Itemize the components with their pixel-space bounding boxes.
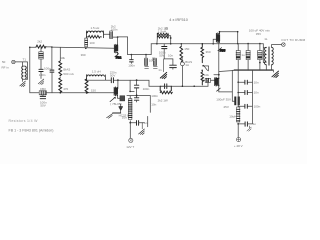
short vertical right	[147, 116, 149, 126]
resistor R5	[110, 31, 113, 39]
labels above R5	[111, 25, 118, 32]
capacitor chain C12b	[134, 96, 138, 102]
svg-text:1A: 1A	[185, 63, 189, 67]
svg-text:10n: 10n	[254, 91, 259, 95]
capacitor C18	[238, 91, 252, 95]
label 100uF 35V	[249, 29, 271, 37]
svg-text:150: 150	[184, 47, 189, 51]
svg-text:1.5 uH: 1.5 uH	[92, 70, 101, 74]
capacitor C10 electrolytic	[258, 44, 262, 71]
resistor R10 150	[180, 44, 183, 62]
wire R360 top	[86, 75, 88, 79]
svg-text:1n: 1n	[158, 68, 162, 72]
node dots rail B	[237, 81, 239, 93]
node dot reg line	[136, 94, 138, 96]
wire feedback to R5	[103, 33, 109, 35]
ground arrow left	[107, 113, 121, 118]
wire T2 bottom to ground	[266, 65, 271, 71]
wire supply bottom line	[219, 70, 273, 71]
connector J4 +28V	[237, 138, 241, 142]
wire input to T1	[15, 62, 27, 66]
wire Q3 source / Q4 drain column	[218, 42, 220, 92]
svg-text:RF in: RF in	[2, 66, 9, 70]
ground below C15	[139, 123, 145, 135]
label BIAS 500mA	[63, 67, 73, 75]
svg-text:OUT TO DUMM: OUT TO DUMM	[281, 38, 305, 42]
wire main rail	[151, 43, 263, 45]
resistor R12	[201, 71, 204, 85]
regulator U1 78L05	[120, 96, 125, 101]
wire FB4 to regulator	[118, 97, 120, 99]
svg-text:50V: 50V	[110, 73, 115, 77]
wire gate Q4	[202, 79, 214, 81]
resistor R14	[160, 86, 172, 94]
node dot bias mid	[60, 75, 62, 77]
wire R10 to meter	[181, 56, 184, 62]
node dot fb2	[170, 37, 172, 39]
wire right rail reg	[149, 96, 151, 113]
svg-text:25V: 25V	[224, 105, 229, 109]
wire rail C	[251, 70, 253, 124]
wire C11 to interstage line	[114, 80, 208, 86]
stub and dot left of caps	[129, 80, 134, 92]
ferrite bead FB3	[39, 91, 46, 95]
node dot gate upper	[85, 48, 87, 50]
wire feedback2 right to node	[168, 36, 171, 44]
wire Q4 source to electrolytic	[219, 91, 233, 93]
capacitor chain C12a	[134, 80, 138, 96]
ground below C6	[160, 59, 166, 79]
wire left vertical rail	[29, 47, 31, 93]
label RF in	[2, 60, 9, 70]
transistor Q3 IRF510	[216, 33, 220, 43]
transistor Q4 IRF510	[215, 77, 219, 86]
svg-text:100n: 100n	[39, 73, 46, 77]
wire Z link drain to bias line	[118, 37, 128, 55]
wire T1 secondary rail	[26, 62, 28, 80]
node dot key	[129, 122, 131, 124]
inductor L1	[86, 31, 103, 38]
resistor R9 parallel	[157, 33, 168, 38]
svg-text:100: 100	[90, 41, 95, 45]
node dot R1 right	[51, 46, 53, 48]
transistor Q2 IRF510	[114, 87, 118, 96]
capacitor C15	[137, 121, 139, 126]
capacitor C7	[164, 59, 176, 69]
svg-text:2k2 1W: 2k2 1W	[158, 99, 168, 103]
ferrite bead FB5	[218, 48, 226, 53]
wire reg line y95	[127, 95, 150, 97]
labels feedback cell 2	[158, 27, 168, 34]
svg-text:10n: 10n	[254, 80, 259, 84]
svg-text:FB2: FB2	[116, 55, 122, 59]
capacitor C1	[39, 59, 43, 79]
transformer T1	[22, 66, 27, 79]
labels 220n 50V	[110, 71, 117, 78]
wire Q2 source	[117, 96, 119, 99]
resistor R4 parallel	[86, 31, 103, 38]
capacitor C13	[160, 84, 171, 89]
wire Q3 drain to supply	[220, 32, 238, 44]
node dots drain line	[182, 85, 195, 87]
svg-text:100uF 35V: 100uF 35V	[216, 98, 231, 102]
ferrite bead FB4	[110, 97, 116, 102]
resistor R13 360	[85, 79, 88, 93]
node dot cap chain	[136, 79, 138, 81]
wire rail A down	[232, 70, 234, 101]
label C6	[159, 50, 166, 57]
label BIAS 1A	[185, 60, 192, 67]
inductor L2	[157, 33, 168, 38]
node dot +28	[237, 123, 239, 125]
svg-text:1u: 1u	[241, 53, 245, 57]
capacitor C20	[245, 122, 247, 126]
wire R3 to lower gate line	[59, 91, 61, 93]
wire gate riser Q4	[207, 80, 209, 86]
svg-text:50V: 50V	[40, 103, 45, 107]
ferrite bead FB6	[205, 78, 210, 82]
node dot trimmer wiper	[201, 70, 203, 72]
svg-text:50: 50	[2, 60, 6, 64]
svg-text:100n: 100n	[254, 105, 261, 109]
wire key node	[130, 121, 136, 123]
resistor R11 360	[201, 44, 204, 63]
small mark circle	[165, 27, 168, 30]
node dots bias line	[131, 54, 147, 56]
capacitor C6 below rail	[162, 44, 167, 59]
capacitor C9 electrolytic	[246, 44, 250, 71]
wire feedback2 left to rail	[156, 38, 158, 44]
choke RFC1	[129, 96, 132, 120]
ferrite bead FB2	[115, 54, 122, 60]
resistor R7	[145, 55, 148, 66]
small bead on riser	[152, 58, 154, 60]
svg-text:100n: 100n	[143, 87, 150, 91]
node dots drain line	[219, 31, 239, 33]
wire to +28 connector	[237, 124, 239, 138]
wire riser to rail	[150, 44, 152, 55]
wire lower gate line right	[46, 92, 114, 94]
ground below T1	[20, 79, 26, 87]
wire source lead Q1	[117, 53, 119, 56]
capacitor C16 electrolytic input	[234, 97, 240, 106]
choke RFC2	[237, 107, 240, 122]
connector J3 key	[129, 138, 133, 142]
wire Q2 drain	[117, 80, 119, 88]
svg-text:BIAS: BIAS	[63, 67, 70, 71]
svg-text:1n: 1n	[144, 121, 148, 125]
ground below C1	[38, 79, 44, 85]
svg-text:100n: 100n	[128, 64, 135, 68]
resistor R2 bias upper	[59, 61, 62, 76]
wire rail B	[237, 70, 239, 107]
svg-text:Resistors 1/4 W: Resistors 1/4 W	[9, 119, 39, 123]
svg-text:50V: 50V	[159, 53, 164, 57]
trimmer P1	[202, 65, 208, 71]
bias divider riser	[59, 48, 61, 61]
resistor R8	[154, 58, 157, 65]
connector J2 output	[282, 43, 286, 47]
svg-text:1.5 uH: 1.5 uH	[91, 26, 100, 30]
wire bottom supply line	[234, 69, 273, 71]
svg-text:360: 360	[81, 53, 86, 57]
svg-text:FB3: FB3	[40, 87, 46, 91]
label C3	[40, 100, 47, 107]
wire meter to drain line	[181, 66, 183, 86]
wire gate line upper	[52, 47, 115, 48]
svg-text:12V T: 12V T	[126, 145, 134, 149]
node dot supply join	[218, 74, 220, 76]
ground below T2	[272, 70, 279, 77]
svg-text:1L: 1L	[264, 37, 268, 41]
capacitor C19	[238, 104, 252, 108]
inductor L3	[87, 75, 105, 80]
node dot left top	[29, 47, 31, 49]
svg-text:4 x IRF510: 4 x IRF510	[169, 18, 188, 22]
stub left of dot	[214, 74, 219, 76]
svg-text:10n: 10n	[122, 116, 127, 120]
wire bias line	[128, 54, 152, 56]
svg-text:360: 360	[206, 50, 211, 54]
capacitor C4	[130, 55, 134, 64]
node dot drain Q1	[117, 36, 119, 38]
transformer T2	[265, 47, 274, 66]
resistor R3 bias lower	[59, 78, 62, 93]
wire L3 bottom	[87, 75, 111, 80]
wire key connector stem	[129, 123, 131, 139]
wire C20 right	[247, 123, 252, 125]
svg-text:FB 1 - 3 FB43 801 (Amidon): FB 1 - 3 FB43 801 (Amidon)	[9, 129, 54, 133]
svg-text:10uH: 10uH	[229, 114, 236, 118]
svg-text:+ 28 V: + 28 V	[234, 144, 243, 148]
svg-text:2k2: 2k2	[37, 40, 42, 44]
wire T2 secondary to output	[272, 45, 282, 48]
node dot Q2 drain top	[117, 79, 119, 81]
labels right of reg rail	[151, 94, 158, 106]
svg-text:1.5uH: 1.5uH	[158, 29, 166, 33]
svg-text:150: 150	[91, 89, 96, 93]
wire R5 to drain node	[113, 36, 118, 38]
transistor Q1 IRF510	[114, 44, 118, 53]
node dots rail	[156, 43, 261, 45]
svg-text:T1: T1	[23, 58, 27, 62]
svg-text:470: 470	[63, 87, 68, 91]
capacitor C11	[111, 78, 113, 83]
capacitor C17	[238, 80, 252, 84]
capacitor C5 plates	[145, 67, 158, 69]
resistor input R1	[30, 45, 52, 48]
svg-text:35V: 35V	[256, 32, 261, 36]
wire gate riser Q3	[213, 39, 216, 44]
svg-text:100n: 100n	[151, 94, 158, 98]
svg-text:500 mA: 500 mA	[63, 72, 73, 76]
capacitor C8 electrolytic	[236, 44, 240, 71]
capacitor C2	[50, 47, 54, 93]
svg-text:10n: 10n	[168, 53, 173, 57]
ferrite bead FB7	[217, 88, 221, 91]
wire +28 node right	[238, 123, 245, 125]
meter M1	[180, 62, 184, 66]
zener D1	[119, 104, 123, 113]
wire drain lead Q1	[117, 37, 119, 45]
wire rail into T2	[263, 44, 266, 63]
wire lower gate line	[30, 92, 39, 94]
ground small below C20	[247, 126, 251, 131]
svg-text:FB5: FB5	[220, 48, 226, 52]
node dot trimmer bottom	[202, 80, 204, 82]
capacitor C3 below FB3	[40, 95, 45, 99]
connector J1 RF input	[12, 60, 15, 63]
svg-text:10n: 10n	[151, 103, 156, 107]
node dots lower line	[60, 92, 88, 94]
resistor box below R1	[39, 47, 43, 59]
svg-text:1n: 1n	[253, 122, 257, 126]
wire C15 right	[139, 122, 145, 124]
svg-text:10k: 10k	[60, 56, 65, 60]
svg-text:10k: 10k	[204, 73, 209, 77]
resistor R6 100	[85, 38, 88, 47]
